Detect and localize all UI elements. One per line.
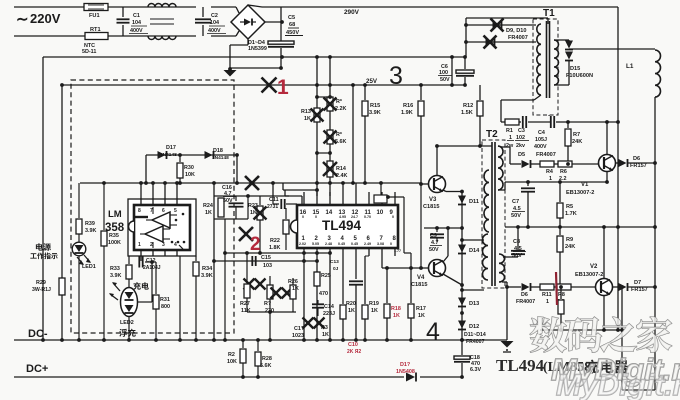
inductor L1 [655, 50, 661, 97]
label R4 1 [546, 169, 553, 182]
wire D17 row [146, 155, 237, 183]
svg-text:6.3V: 6.3V [470, 367, 481, 373]
wire TL494 top pin stubs [304, 192, 395, 205]
svg-text:R15: R15 [370, 103, 380, 109]
wire AC line bottom [14, 35, 85, 37]
wire diode chain vertical [461, 191, 463, 340]
label R34 3.9K [201, 266, 213, 279]
watermark MyDigit.net 2 [556, 369, 680, 400]
opamp triangle A [146, 207, 177, 228]
label C18 470 6.3V [470, 355, 481, 373]
label R17 1K [416, 306, 426, 319]
svg-text:R28: R28 [262, 356, 272, 362]
label DC+ [26, 363, 48, 375]
label R 270 [264, 301, 274, 314]
label 4 [426, 318, 440, 346]
wire LM358 top stubs [139, 181, 179, 205]
resistor R1 [501, 119, 519, 125]
label C15 103 [261, 255, 272, 269]
svg-text:24K: 24K [572, 139, 582, 145]
label C13 1023 [292, 326, 304, 339]
svg-text:220V: 220V [30, 11, 61, 26]
transistor V1 [599, 122, 616, 172]
svg-text:400V: 400V [534, 144, 547, 150]
svg-text:2731: 2731 [267, 204, 278, 210]
svg-text:50V: 50V [440, 77, 450, 83]
svg-text:V3: V3 [429, 197, 437, 203]
label V4 C1815 [411, 275, 427, 288]
wire column x330 [329, 57, 331, 196]
wire C6 branch [451, 57, 453, 85]
svg-text:R5: R5 [566, 204, 573, 210]
svg-text:3.08: 3.08 [377, 242, 384, 246]
svg-text:14: 14 [326, 210, 333, 216]
resistor R31 [145, 260, 159, 340]
wire AC bottom to bridge [211, 31, 239, 36]
diode D19 1N5408 [406, 373, 416, 382]
svg-text:D7: D7 [634, 280, 641, 286]
wire main box left edge [42, 57, 44, 340]
label R3 1K [321, 325, 329, 338]
label D6b FR4007 [516, 292, 535, 305]
diode D17 [158, 151, 167, 159]
label C16 4.7 50V [222, 185, 236, 204]
svg-text:R13: R13 [301, 109, 311, 115]
wire V2 emitter [602, 296, 606, 332]
svg-text:EB13007-2: EB13007-2 [575, 272, 603, 278]
svg-text:FR4007: FR4007 [508, 35, 528, 41]
svg-text:10: 10 [377, 210, 384, 216]
wire AC top to C1 [108, 6, 196, 8]
svg-text:2kv: 2kv [516, 143, 525, 149]
watermark MyDigit.net [551, 352, 680, 387]
transistor V4 [429, 260, 446, 277]
svg-text:C1815: C1815 [411, 282, 427, 288]
diode D10 crossed [464, 36, 536, 49]
wire DC+ rail [14, 376, 462, 378]
label R12 1.5K [461, 103, 473, 116]
svg-text:1.9K: 1.9K [401, 110, 413, 116]
resistor R12 [477, 85, 483, 146]
svg-text:C3: C3 [518, 128, 525, 134]
diode D9 crossed [464, 19, 536, 32]
resistor Rx 5.6K crossed [324, 130, 337, 144]
svg-text:1N5408: 1N5408 [396, 369, 415, 375]
svg-text:D13: D13 [469, 301, 479, 307]
svg-text:R?: R? [264, 301, 271, 307]
label R13 1K [301, 109, 311, 122]
label D5 FR4007 [518, 152, 556, 158]
resistor R270 [267, 276, 273, 312]
diode D15a [565, 41, 573, 50]
watermark shuma zhijia [530, 317, 672, 353]
svg-text:R14: R14 [336, 166, 346, 172]
svg-text:C15: C15 [261, 255, 271, 261]
op-amp IC U2 TL494 [291, 205, 398, 248]
wire T2 primary bottom [498, 182, 505, 190]
svg-text:2.2K: 2.2K [335, 106, 346, 112]
capacitor C8 [503, 225, 525, 257]
svg-text:FR4007: FR4007 [536, 152, 556, 158]
wire T1 top feed [466, 18, 548, 24]
wire AC bottom to C2 [108, 35, 196, 37]
label R25 470 [319, 273, 331, 297]
wire AC top to bridge [211, 7, 239, 13]
svg-text:C11: C11 [269, 197, 279, 203]
wire bridge right to C5 node [265, 20, 284, 24]
svg-text:DC+: DC+ [26, 363, 48, 375]
diode D6b [507, 283, 531, 291]
resistor R18 [384, 268, 390, 340]
wire bridge bottom down [230, 39, 248, 68]
label TL494 [322, 218, 362, 233]
thermistor RT1 [85, 33, 108, 40]
svg-text:∼: ∼ [16, 11, 29, 28]
resistor R34 [193, 256, 199, 340]
label D7 FR157 [631, 280, 648, 293]
wire output vertical [620, 285, 624, 390]
svg-text:C8: C8 [513, 239, 520, 245]
wire pin1 col [303, 256, 305, 340]
ground symbol [501, 341, 514, 352]
diode D7 [612, 283, 657, 291]
svg-text:R18: R18 [391, 306, 401, 312]
node dots top rail [280, 55, 454, 59]
marker X1 [262, 76, 290, 99]
svg-text:R3: R3 [321, 325, 328, 331]
op-amp IC U1 LM358 [129, 205, 190, 250]
label D9 D10 FR4007 [506, 28, 528, 41]
transformer T2 winding lower left2 [483, 234, 489, 280]
wire 290V right vertical [617, 7, 619, 330]
svg-text:2.02: 2.02 [299, 242, 306, 246]
fuse FU1 [84, 4, 108, 11]
resistor R9 [557, 227, 563, 289]
svg-text:6: 6 [162, 208, 165, 214]
resistor R15 [362, 85, 368, 185]
svg-text:D15: D15 [570, 66, 580, 72]
label C13 [330, 259, 339, 272]
wire AC line top [14, 6, 84, 8]
marker XX pair a [244, 279, 266, 290]
svg-text:V1: V1 [581, 182, 589, 188]
capacitor C7 [521, 180, 535, 229]
capacitor C5 [268, 7, 294, 47]
svg-text:0.45: 0.45 [338, 242, 345, 246]
label R7 24K [572, 132, 582, 145]
wire right edge vertical [654, 97, 656, 390]
label D18 1N4148 [212, 148, 229, 161]
svg-text:R19: R19 [369, 301, 379, 307]
svg-text:3: 3 [389, 62, 403, 90]
svg-text:V4: V4 [417, 275, 425, 281]
svg-text:3.9K: 3.9K [110, 273, 121, 279]
svg-text:104: 104 [210, 20, 219, 26]
svg-text:1K: 1K [250, 210, 257, 216]
capacitor on pin5 [349, 256, 363, 340]
svg-text:5D-11: 5D-11 [82, 49, 96, 55]
svg-text:C5: C5 [288, 15, 295, 21]
label R19 1K [369, 301, 379, 314]
svg-text:1K: 1K [371, 308, 378, 314]
svg-text:5.6K: 5.6K [260, 363, 271, 369]
transformer T1 primary [537, 24, 541, 95]
svg-text:R9: R9 [566, 237, 573, 243]
label LM 358 [105, 209, 125, 234]
svg-text:FR157: FR157 [630, 163, 647, 169]
wire ground node to C5 bottom [230, 66, 283, 70]
wire main box top rail [43, 56, 466, 58]
wire bus y253 [223, 251, 332, 255]
resistor Rx 2.2K crossed [324, 97, 337, 111]
wire D9D10 left vertical [465, 18, 467, 57]
svg-text:223J: 223J [323, 311, 335, 317]
diode D5 [510, 160, 540, 168]
wire T1 secondary top to D15 [554, 39, 569, 41]
svg-text:2.48: 2.48 [325, 242, 332, 246]
dashed control box [71, 80, 234, 333]
wire TL494 bottom pin stubs [304, 248, 395, 256]
LED LED1 [72, 242, 91, 340]
diode D11 [458, 196, 466, 205]
label D12 [469, 324, 479, 330]
label V3 C1815 [423, 197, 439, 210]
svg-text:V2: V2 [590, 264, 598, 270]
wire emitter rail y182 [505, 181, 607, 183]
label R28 5.6K [260, 356, 272, 369]
label title TL494 LM358 charger [496, 356, 628, 375]
wire column x353 [351, 85, 355, 185]
wire V3 base [419, 182, 428, 268]
label R23 1K [248, 203, 258, 216]
svg-text:50V: 50V [429, 247, 439, 253]
svg-text:R39: R39 [85, 221, 95, 227]
node dots 25V rail [315, 83, 454, 87]
svg-text:2.49: 2.49 [364, 242, 371, 246]
label R1 1 2W [506, 128, 514, 149]
svg-text:R11: R11 [542, 292, 552, 298]
common-mode choke [148, 4, 176, 40]
resistor R4 [540, 161, 554, 167]
svg-text:11K: 11K [241, 308, 251, 314]
capacitor C11 [273, 196, 297, 209]
label D17 1N4148 [160, 145, 177, 158]
wire block rails [214, 194, 250, 219]
resistor R19 [362, 256, 369, 340]
svg-text:R24: R24 [203, 203, 213, 209]
pin numbers LM358 top [135, 208, 184, 221]
svg-text:103: 103 [263, 263, 272, 269]
label R15 3.9K [369, 103, 381, 116]
label C11 2731 [267, 197, 279, 210]
resistor R25 [314, 256, 320, 286]
diode D14 [458, 238, 466, 253]
wire x180 vertical [179, 256, 181, 340]
svg-text:0: 0 [302, 215, 304, 219]
capacitor C16 [229, 196, 244, 219]
svg-text:C4: C4 [538, 130, 545, 136]
label C3 102 2kv [515, 128, 529, 149]
wire V4 emitter [443, 274, 464, 287]
svg-text:R34: R34 [202, 266, 213, 272]
svg-text:24K: 24K [565, 244, 575, 250]
svg-text:R29: R29 [36, 280, 46, 286]
marker X2 [239, 227, 261, 255]
resistor R28 [255, 340, 261, 379]
label LED1 [82, 264, 96, 270]
resistor R6 [554, 161, 598, 167]
svg-text:D12: D12 [469, 324, 479, 330]
wire V4 collector [424, 226, 464, 262]
label C5 68 450V [285, 15, 303, 36]
resistor R17 [408, 268, 414, 340]
svg-text:2: 2 [250, 234, 261, 255]
svg-text:C1815: C1815 [423, 204, 439, 210]
svg-text:2: 2 [150, 242, 153, 248]
label R30 10K [184, 165, 195, 178]
label RT1 [90, 27, 101, 33]
capacitor C2 [195, 7, 211, 36]
svg-text:4.95: 4.95 [339, 215, 346, 219]
svg-text:25V: 25V [366, 78, 378, 85]
svg-text:R22: R22 [270, 238, 280, 244]
label 290V [344, 9, 360, 16]
label R35 100K [108, 233, 121, 246]
resistor R35 [101, 183, 107, 340]
wire link y153 [315, 151, 332, 155]
svg-text:C7: C7 [512, 199, 519, 205]
resistor R8 [554, 284, 596, 290]
resistor R39 [76, 183, 82, 243]
label R6 2.2 [559, 169, 567, 182]
resistor R27 [244, 251, 250, 312]
svg-text:D5: D5 [518, 152, 525, 158]
label R33 3.9K [110, 266, 121, 279]
bridge rectifier D1-D4 [231, 5, 265, 39]
svg-text:C9: C9 [430, 233, 437, 239]
transistor V3 [429, 176, 446, 193]
wire feed y190 [283, 183, 319, 192]
wire V1 collector rail [566, 120, 620, 124]
component box above pins [374, 181, 387, 203]
svg-text:50V: 50V [512, 253, 522, 259]
transformer T1 core [547, 21, 550, 98]
svg-text:R7: R7 [573, 132, 580, 138]
svg-text:R4: R4 [546, 169, 553, 175]
label R9 24K [565, 237, 575, 250]
red pen mark [556, 272, 557, 305]
svg-text:0: 0 [315, 215, 317, 219]
svg-text:MyDigit.net: MyDigit.net [556, 369, 680, 400]
wire V1 emitter [605, 172, 609, 184]
svg-text:1N4148: 1N4148 [212, 155, 229, 161]
svg-text:TL494: TL494 [322, 218, 362, 233]
svg-text:1K: 1K [304, 116, 311, 122]
resistor R13 crossed [311, 95, 332, 122]
svg-text:D6: D6 [633, 156, 640, 162]
wire bus y261 [212, 259, 319, 263]
svg-text:R33: R33 [110, 266, 120, 272]
svg-text:1K: 1K [348, 308, 355, 314]
pin numbers TL494 bottom [302, 236, 397, 242]
svg-text:0.45: 0.45 [351, 242, 358, 246]
svg-text:68: 68 [289, 22, 295, 28]
wire T1 secondary bottom [554, 63, 569, 85]
capacitor C9 [430, 226, 444, 242]
wire cluster bottom rail [247, 310, 296, 340]
svg-text:C13: C13 [330, 259, 339, 265]
label R26 1K [288, 279, 299, 292]
resistor R2 [240, 340, 246, 379]
label C6 100 50V [438, 64, 452, 83]
svg-text:4: 4 [174, 242, 177, 248]
svg-text:R17: R17 [416, 306, 426, 312]
label R20 1K [346, 301, 356, 314]
diode D18 [178, 151, 239, 159]
label R16 1.9K [401, 103, 413, 116]
wire pin14 to rail [343, 183, 356, 192]
capacitor C18 [454, 338, 470, 379]
svg-text:2K Я2: 2K Я2 [347, 349, 361, 355]
marker X on rail [245, 176, 259, 190]
wire T1 primary bottom out [501, 95, 541, 122]
svg-text:1K: 1K [292, 286, 299, 292]
svg-text:24.7: 24.7 [351, 215, 358, 219]
resistor R5 [557, 180, 563, 229]
wire pin3 col [329, 256, 331, 340]
svg-text:3.9K: 3.9K [369, 110, 381, 116]
svg-text:D6: D6 [521, 292, 528, 298]
transistor V2 [596, 227, 613, 296]
resistor R33 [126, 256, 132, 279]
svg-text:1: 1 [549, 176, 552, 182]
diode D15b [565, 40, 573, 61]
transformer T2 outline [482, 140, 505, 288]
svg-text:3.9K: 3.9K [201, 273, 213, 279]
label R22 1.8K [269, 238, 280, 251]
svg-text:R26: R26 [288, 279, 298, 285]
pin values TL494 bottom [299, 242, 401, 253]
pin numbers TL494 top [300, 210, 394, 216]
label R24 1K [203, 203, 213, 216]
svg-text:D14: D14 [469, 248, 480, 254]
wire V3 emitter to D11 [443, 190, 464, 194]
svg-text:R6: R6 [560, 169, 567, 175]
label float charge [119, 329, 136, 337]
wire V4 base row [382, 256, 429, 270]
svg-text:5.05: 5.05 [312, 242, 319, 246]
svg-text:290V: 290V [344, 9, 360, 16]
svg-text:104: 104 [132, 20, 141, 26]
wire C5 bottom lead [280, 48, 282, 68]
label 3 [389, 62, 403, 90]
svg-text:1K: 1K [418, 313, 425, 319]
svg-text:0.70: 0.70 [364, 215, 371, 219]
label R39 3.9K [85, 221, 96, 234]
label D6 FR157 [630, 156, 647, 169]
svg-text:1K: 1K [205, 210, 212, 216]
wire column x317 [316, 57, 318, 196]
svg-text:0: 0 [390, 242, 392, 246]
svg-text:FR4007: FR4007 [516, 299, 535, 305]
svg-text:EB13007-2: EB13007-2 [566, 190, 594, 196]
label C12 2A104J [143, 258, 161, 271]
resistor R29 [59, 278, 65, 295]
wire outer loop right [386, 195, 411, 268]
LED LED2 [109, 279, 138, 340]
svg-text:800: 800 [161, 304, 170, 310]
svg-text:5.6K: 5.6K [335, 139, 346, 145]
